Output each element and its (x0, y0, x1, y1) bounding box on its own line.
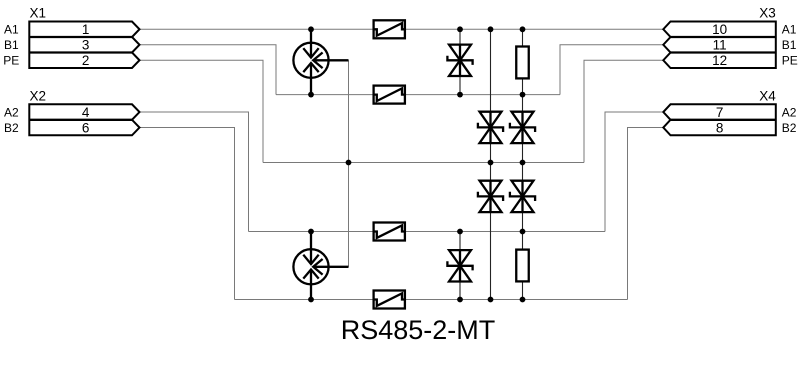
pin 4 (82, 105, 90, 120)
wire B1 right segment (560, 45, 663, 95)
pin 7 (716, 105, 724, 120)
label X4 (759, 88, 776, 103)
connector X3 (663, 22, 776, 69)
fuse F1 (374, 20, 405, 38)
svg-text:PE: PE (782, 54, 798, 68)
svg-text:A2: A2 (782, 105, 797, 119)
pin 8 (716, 120, 724, 135)
node A dots (308, 26, 525, 32)
label B1 right (782, 38, 797, 52)
pin 6 (82, 120, 90, 135)
fuse F2 (374, 86, 405, 104)
label PE left (3, 54, 19, 68)
svg-text:7: 7 (716, 105, 724, 120)
node D dots (308, 297, 525, 303)
wire GDT center electrode vertical (348, 60, 350, 266)
resistor R2 (516, 250, 529, 282)
wire B2 left segment (140, 128, 235, 300)
wire PE left segment (140, 60, 264, 162)
wire B net horizontal (276, 94, 560, 96)
label X2 (30, 88, 47, 103)
connector X4 (663, 104, 776, 135)
pin 11 (713, 38, 727, 53)
wire middle column (490, 29, 492, 299)
svg-text:1: 1 (82, 22, 90, 37)
svg-text:10: 10 (712, 22, 727, 37)
TVS diode V1 (447, 45, 472, 76)
svg-text:A1: A1 (782, 23, 797, 37)
pin 1 (82, 22, 90, 37)
svg-text:PE: PE (3, 54, 19, 68)
svg-text:12: 12 (712, 53, 727, 68)
TVS diode V4 (478, 181, 503, 212)
label B1 left (4, 38, 19, 52)
svg-text:X1: X1 (30, 6, 47, 21)
title RS485-2-MT (341, 315, 496, 345)
gas discharge tube GDT1 (293, 29, 348, 94)
pin 10 (712, 22, 727, 37)
svg-text:X2: X2 (30, 88, 47, 103)
label A2 left (4, 105, 19, 119)
wire TVS column left top (459, 29, 461, 94)
fuse F3 (374, 223, 405, 241)
wire PE net horizontal (263, 162, 584, 164)
label B2 right (782, 121, 797, 135)
wire PE right segment (584, 60, 663, 162)
svg-text:X3: X3 (759, 6, 776, 21)
svg-text:4: 4 (82, 105, 90, 120)
svg-text:B1: B1 (4, 38, 19, 52)
svg-text:11: 11 (713, 38, 727, 53)
pin 3 (82, 38, 90, 53)
TVS diode V5 (510, 181, 535, 212)
TVS diode V2 (478, 112, 503, 143)
label A1 left (4, 23, 19, 37)
connector X1 (29, 22, 139, 69)
node PE dots (346, 160, 526, 166)
wire A2 left segment (140, 112, 249, 231)
wire B2 right segment (628, 128, 664, 300)
svg-text:A1: A1 (4, 23, 19, 37)
svg-text:3: 3 (82, 38, 90, 53)
svg-text:B2: B2 (782, 121, 797, 135)
wire resistor column (522, 29, 524, 299)
wire A2 right segment (605, 112, 663, 231)
fuse F4 (374, 291, 405, 309)
resistor R1 (516, 47, 529, 79)
pin 12 (712, 53, 727, 68)
pin 2 (82, 53, 90, 68)
TVS diode V6 (447, 250, 472, 281)
svg-text:B1: B1 (782, 38, 797, 52)
svg-text:6: 6 (82, 120, 90, 135)
wire B1 left segment (140, 45, 277, 95)
svg-text:B2: B2 (4, 121, 19, 135)
svg-text:2: 2 (82, 53, 90, 68)
svg-text:A2: A2 (4, 105, 19, 119)
label A1 right (782, 23, 797, 37)
wire D net horizontal (235, 299, 628, 301)
svg-text:8: 8 (716, 120, 724, 135)
wire TVS column left bottom (459, 232, 461, 300)
node B dots (308, 92, 525, 98)
TVS diode V3 (510, 112, 535, 143)
svg-text:RS485-2-MT: RS485-2-MT (341, 315, 496, 345)
label B2 left (4, 121, 19, 135)
label A2 right (782, 105, 797, 119)
wire C net horizontal (249, 231, 606, 233)
svg-text:X4: X4 (759, 88, 776, 103)
node C dots (308, 229, 525, 235)
label X3 (759, 6, 776, 21)
label PE right (782, 54, 798, 68)
label X1 (30, 6, 47, 21)
wire A1 net top (X1.1 to X3.10) (140, 28, 664, 30)
gas discharge tube GDT2 (293, 232, 348, 300)
connector X2 (29, 104, 139, 135)
